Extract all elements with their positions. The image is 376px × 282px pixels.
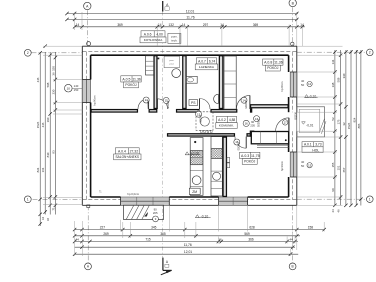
svg-text:369: 369 xyxy=(117,23,123,27)
svg-text:824: 824 xyxy=(352,117,356,122)
svg-text:11,76: 11,76 xyxy=(186,15,194,19)
svg-text:80/205: 80/205 xyxy=(166,101,170,109)
svg-text:KOTŁOWNIA: KOTŁOWNIA xyxy=(144,38,164,42)
svg-text:A.0.1: A.0.1 xyxy=(304,143,312,147)
svg-text:ZM: ZM xyxy=(192,190,197,194)
svg-text:A.0.8: A.0.8 xyxy=(264,61,272,65)
svg-text:151: 151 xyxy=(337,165,341,170)
svg-text:ŁAZIENKA: ŁAZIENKA xyxy=(199,65,215,69)
svg-text:46: 46 xyxy=(337,209,341,213)
svg-text:1526: 1526 xyxy=(36,121,40,128)
svg-text:POKÓJ: POKÓJ xyxy=(244,159,256,164)
svg-text:2: 2 xyxy=(369,51,371,55)
svg-text:B: B xyxy=(292,265,294,269)
svg-text:508: 508 xyxy=(337,77,341,82)
svg-text:14: 14 xyxy=(76,23,80,27)
svg-text:4,88: 4,88 xyxy=(229,118,236,122)
svg-text:A.0.7: A.0.7 xyxy=(198,59,206,63)
svg-text:80/205: 80/205 xyxy=(199,115,203,123)
svg-text:13: 13 xyxy=(308,163,311,167)
svg-text:71: 71 xyxy=(51,207,55,211)
svg-text:227: 227 xyxy=(100,226,106,230)
svg-text:132: 132 xyxy=(169,23,175,27)
svg-text:46: 46 xyxy=(46,218,50,222)
svg-text:657: 657 xyxy=(342,167,346,172)
svg-text:628: 628 xyxy=(249,226,255,230)
svg-text:830: 830 xyxy=(46,152,50,157)
svg-text:138: 138 xyxy=(331,82,335,87)
svg-text:2: 2 xyxy=(27,51,29,55)
svg-text:3,73: 3,73 xyxy=(315,143,322,147)
svg-text:345: 345 xyxy=(151,226,157,230)
svg-text:1526: 1526 xyxy=(347,122,351,129)
svg-text:330: 330 xyxy=(342,73,346,78)
svg-text:90/205: 90/205 xyxy=(294,112,297,120)
svg-text:90: 90 xyxy=(331,188,335,192)
svg-text:44: 44 xyxy=(41,217,45,221)
svg-text:52: 52 xyxy=(331,117,335,121)
svg-text:SALON+ANEKS: SALON+ANEKS xyxy=(116,155,139,159)
svg-text:569: 569 xyxy=(244,232,250,236)
svg-text:14: 14 xyxy=(182,23,186,27)
svg-text:80/205: 80/205 xyxy=(244,101,248,109)
svg-text:A.0.5: A.0.5 xyxy=(122,77,130,81)
svg-text:366: 366 xyxy=(248,238,254,242)
svg-text:824: 824 xyxy=(36,167,40,172)
svg-text:11,36: 11,36 xyxy=(132,77,141,81)
svg-text:205: 205 xyxy=(153,211,158,215)
svg-text:pom.: pom. xyxy=(169,60,174,62)
svg-text:11,76: 11,76 xyxy=(184,243,192,247)
svg-text:1: 1 xyxy=(369,198,371,202)
svg-text:90/205: 90/205 xyxy=(257,119,261,127)
svg-text:17: 17 xyxy=(284,121,287,125)
svg-text:44: 44 xyxy=(289,238,293,242)
svg-text:205: 205 xyxy=(250,124,255,128)
svg-text:10: 10 xyxy=(67,86,71,90)
svg-text:1: 1 xyxy=(27,198,29,202)
svg-text:173: 173 xyxy=(337,119,341,124)
svg-text:144: 144 xyxy=(331,59,335,64)
svg-text:164: 164 xyxy=(41,167,45,172)
svg-text:A.0.6: A.0.6 xyxy=(144,32,152,36)
svg-text:-0,01: -0,01 xyxy=(306,124,313,128)
svg-text:365: 365 xyxy=(160,232,166,236)
svg-text:12: 12 xyxy=(308,82,311,86)
svg-text:32: 32 xyxy=(342,122,346,126)
svg-text:446: 446 xyxy=(41,122,45,127)
svg-text:230: 230 xyxy=(51,89,55,94)
svg-text:80/205: 80/205 xyxy=(146,101,150,109)
svg-text:27,32: 27,32 xyxy=(130,149,139,153)
svg-text:83: 83 xyxy=(51,150,55,154)
svg-text:POKÓJ: POKÓJ xyxy=(267,65,279,70)
svg-text:PS: PS xyxy=(191,101,196,105)
svg-text:90/205: 90/205 xyxy=(237,143,241,151)
svg-text:11,36: 11,36 xyxy=(274,61,283,65)
svg-text:hp.90cm: hp.90cm xyxy=(280,161,284,171)
svg-text:297: 297 xyxy=(203,23,209,27)
svg-text:44: 44 xyxy=(331,209,335,213)
svg-text:886: 886 xyxy=(357,123,361,128)
svg-text:14: 14 xyxy=(158,23,162,27)
svg-text:11,75: 11,75 xyxy=(251,154,260,158)
svg-text:150: 150 xyxy=(51,66,55,71)
svg-text:12,01: 12,01 xyxy=(184,250,192,254)
svg-text:508: 508 xyxy=(46,82,50,87)
svg-text:715: 715 xyxy=(145,238,151,242)
svg-text:36: 36 xyxy=(51,72,55,76)
svg-text:12,01: 12,01 xyxy=(186,10,195,14)
svg-text:hp.90cm: hp.90cm xyxy=(280,82,284,92)
svg-text:369: 369 xyxy=(253,23,259,27)
svg-text:150: 150 xyxy=(74,88,79,92)
svg-text:POKÓJ: POKÓJ xyxy=(125,82,137,87)
svg-text:A.0.4: A.0.4 xyxy=(118,149,126,153)
svg-text:155: 155 xyxy=(331,162,335,167)
svg-text:A.0.2: A.0.2 xyxy=(218,118,226,122)
svg-text:16: 16 xyxy=(245,122,249,126)
svg-text:6,74: 6,74 xyxy=(209,59,216,63)
svg-text:158: 158 xyxy=(308,225,314,229)
svg-text:tech.: tech. xyxy=(171,39,177,43)
svg-text:190: 190 xyxy=(46,117,50,122)
svg-text:269: 269 xyxy=(103,232,109,236)
svg-text:50: 50 xyxy=(301,83,305,87)
svg-text:hp.90cm: hp.90cm xyxy=(93,96,97,106)
svg-text:44: 44 xyxy=(76,238,80,242)
svg-text:A.0.3: A.0.3 xyxy=(241,154,249,158)
svg-text:KOMUNIK.: KOMUNIK. xyxy=(219,124,234,128)
svg-text:90: 90 xyxy=(251,120,254,124)
svg-text:hp.0,0cm: hp.0,0cm xyxy=(127,192,139,196)
svg-text:pral.: pral. xyxy=(170,63,175,66)
svg-text:50: 50 xyxy=(301,164,305,168)
svg-text:446: 446 xyxy=(36,77,40,82)
